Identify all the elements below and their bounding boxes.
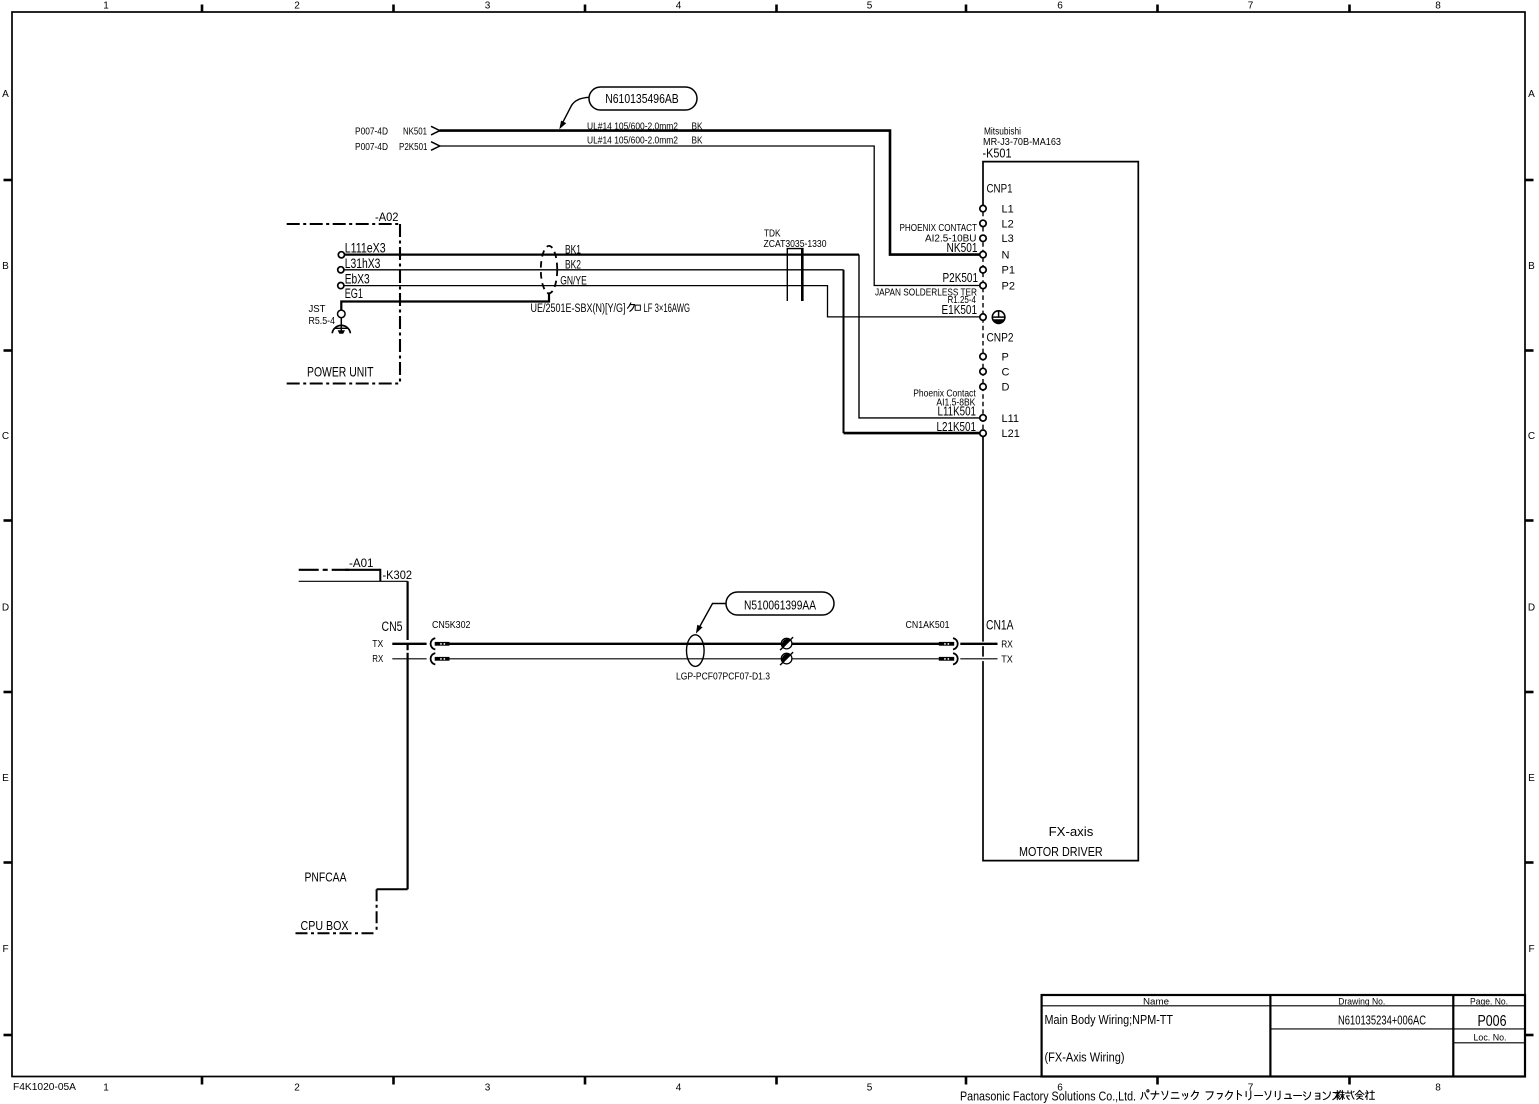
svg-text:BK2: BK2	[565, 258, 581, 272]
svg-text:8: 8	[1435, 0, 1441, 11]
power unit A02 enclosure dash-dot	[287, 224, 400, 384]
svg-text:5: 5	[867, 0, 873, 11]
svg-text:A: A	[2, 89, 9, 100]
cable clamp symbols	[780, 637, 793, 650]
svg-text:L21: L21	[1002, 428, 1020, 440]
pin D K501	[980, 384, 986, 390]
svg-text:B: B	[1528, 261, 1535, 272]
svg-text:TX: TX	[372, 639, 383, 650]
svg-text:D: D	[1528, 603, 1535, 614]
svg-text:Main Body Wiring;NPM-TT: Main Body Wiring;NPM-TT	[1045, 1012, 1174, 1027]
svg-text:-A01: -A01	[349, 556, 374, 570]
svg-text:CN5K302: CN5K302	[432, 619, 471, 631]
K302 designator drop	[379, 569, 381, 582]
svg-text:-K501: -K501	[983, 146, 1012, 161]
svg-text:3: 3	[485, 1082, 491, 1093]
wire L21K501 thick run	[844, 432, 984, 435]
svg-text:5: 5	[867, 1082, 873, 1093]
protective earth symbol at E1K501	[992, 311, 1005, 324]
svg-text:7: 7	[1248, 0, 1254, 11]
wire RX to CN1A-TX	[392, 658, 426, 660]
svg-text:2: 2	[294, 1082, 300, 1093]
pin C K501	[980, 368, 986, 374]
svg-text:BK1: BK1	[565, 243, 581, 257]
svg-text:E1K501: E1K501	[942, 303, 978, 317]
pin L3 K501	[980, 235, 986, 241]
svg-text:Loc. No.: Loc. No.	[1474, 1032, 1507, 1042]
svg-text:P006: P006	[1478, 1013, 1507, 1030]
svg-text:UL#14 105/600-2.0mm2: UL#14 105/600-2.0mm2	[587, 135, 678, 147]
svg-text:L31hX3: L31hX3	[345, 256, 381, 271]
svg-text:F: F	[2, 944, 8, 955]
pin L21 K501	[980, 430, 986, 436]
svg-text:EbX3: EbX3	[345, 272, 370, 287]
svg-text:F: F	[1528, 944, 1534, 955]
svg-text:ZCAT3035-1330: ZCAT3035-1330	[764, 238, 827, 250]
terminal EbX3	[338, 283, 344, 289]
svg-text:4: 4	[676, 0, 682, 11]
wire EG1 to cable shield	[341, 293, 549, 310]
wire L111eX3/BK1 to L11K501	[345, 253, 860, 255]
svg-text:P007-4D: P007-4D	[355, 126, 388, 138]
connector CN1AK501 plug	[939, 657, 954, 661]
terminal EG1 / JST R5.5-4	[338, 310, 346, 318]
pin P K501	[980, 353, 986, 359]
svg-text:R5.5-4: R5.5-4	[309, 315, 336, 327]
svg-text:Drawing No.: Drawing No.	[1338, 996, 1385, 1006]
svg-text:N610135234+006AC: N610135234+006AC	[1338, 1013, 1426, 1028]
svg-text:BK: BK	[692, 121, 703, 133]
svg-text:P2K501: P2K501	[943, 271, 979, 285]
leader arrow to NK501 wire	[563, 97, 589, 122]
svg-text:P007-4D: P007-4D	[355, 141, 388, 153]
svg-text:L111eX3: L111eX3	[345, 241, 386, 256]
svg-text:E: E	[1528, 773, 1535, 784]
svg-text:CNP1: CNP1	[987, 184, 1013, 196]
cpu box A01 boundary dash-dot	[299, 569, 349, 571]
pin PE K501	[980, 314, 986, 320]
svg-text:4: 4	[676, 1082, 682, 1093]
svg-text:-K302: -K302	[383, 568, 413, 582]
svg-text:Name: Name	[1143, 996, 1169, 1006]
svg-text:N510061399AA: N510061399AA	[744, 598, 816, 613]
Panasonic caption japanese (drawn glyphs)	[1141, 1090, 1341, 1100]
svg-text:LGP-PCF07PCF07-D1.3: LGP-PCF07PCF07-D1.3	[676, 671, 770, 683]
pin P2 K501	[980, 282, 986, 288]
svg-text:D: D	[2, 603, 9, 614]
part label N610135496AB	[559, 87, 697, 129]
title block	[1042, 995, 1525, 1077]
pin L11 K501	[980, 415, 986, 421]
svg-text:RX: RX	[372, 654, 383, 665]
svg-text:N: N	[1002, 250, 1010, 262]
motor driver K501 box	[983, 162, 1138, 861]
svg-text:L3: L3	[1002, 233, 1014, 245]
svg-text:B: B	[2, 261, 9, 272]
svg-text:UL#14 105/600-2.0mm2: UL#14 105/600-2.0mm2	[587, 121, 678, 133]
svg-text:L21K501: L21K501	[937, 420, 977, 434]
svg-text:JST: JST	[309, 303, 327, 315]
svg-text:LF 3×16AWG: LF 3×16AWG	[644, 303, 691, 315]
svg-text:F4K1020-05A: F4K1020-05A	[13, 1082, 76, 1093]
wire entry arrow P2K501	[431, 142, 440, 151]
svg-text:FX-axis: FX-axis	[1049, 825, 1094, 839]
connector CN5K302 socket	[431, 653, 436, 664]
title block texts	[1045, 996, 1509, 1064]
svg-text:E: E	[2, 773, 9, 784]
svg-text:BK: BK	[692, 135, 703, 147]
wire L31hX3/BK2 to L21K501	[344, 269, 844, 271]
leader arrow to cable	[700, 604, 727, 628]
svg-text:P1: P1	[1002, 265, 1015, 277]
connector CN1AK501 plug	[939, 642, 954, 646]
connector pin chain dashed	[982, 212, 984, 430]
svg-text:TX: TX	[1001, 654, 1013, 665]
svg-text:8: 8	[1435, 1082, 1441, 1093]
wire NK501 from P007-4D to K501 pin N	[440, 131, 984, 255]
terminal L31hX3	[338, 267, 344, 273]
svg-text:P2K501: P2K501	[399, 141, 428, 153]
svg-text:MOTOR DRIVER: MOTOR DRIVER	[1019, 845, 1103, 859]
svg-text:EG1: EG1	[345, 286, 363, 301]
pin N K501	[980, 251, 986, 257]
svg-text:2: 2	[294, 0, 300, 11]
svg-text:RX: RX	[1001, 639, 1013, 650]
pin P1 K501	[980, 267, 986, 273]
svg-text:N610135496AB: N610135496AB	[605, 91, 679, 106]
svg-text:3: 3	[485, 0, 491, 11]
svg-text:CPU BOX: CPU BOX	[301, 918, 349, 933]
svg-text:L11: L11	[1002, 413, 1020, 425]
terminal L111eX3	[338, 252, 344, 258]
svg-text:Panasonic Factory Solutions Co: Panasonic Factory Solutions Co.,Ltd.	[960, 1089, 1136, 1103]
svg-text:P2: P2	[1002, 280, 1015, 292]
wire entry arrow NK501	[431, 126, 440, 135]
svg-text:C: C	[1002, 366, 1010, 378]
svg-text:CN1AK501: CN1AK501	[906, 619, 950, 631]
svg-text:GN/YE: GN/YE	[560, 273, 587, 287]
svg-text:1: 1	[103, 1082, 109, 1093]
K302 box right edge with wire gaps	[296, 581, 408, 933]
svg-text:L11K501: L11K501	[938, 405, 977, 419]
svg-text:CN5: CN5	[382, 619, 403, 634]
svg-text:P: P	[1002, 351, 1009, 363]
svg-text:C: C	[2, 431, 9, 442]
pin L1 K501	[980, 205, 986, 211]
svg-text:C: C	[1528, 431, 1535, 442]
pin L2 K501	[980, 220, 986, 226]
svg-text:6: 6	[1057, 0, 1063, 11]
cable marker ellipse LGP	[687, 635, 705, 667]
earth ground symbol JST	[332, 318, 350, 334]
svg-text:Page. No.: Page. No.	[1470, 996, 1508, 1006]
svg-text:L1: L1	[1002, 204, 1014, 216]
svg-text:CNP2: CNP2	[987, 333, 1014, 345]
cpu box dash-dot lower	[376, 889, 378, 933]
svg-text:UE/2501E-SBX(N)[Y/G]: UE/2501E-SBX(N)[Y/G]	[531, 303, 626, 315]
svg-text:CN1A: CN1A	[986, 618, 1014, 633]
K302 box top edge	[299, 580, 408, 582]
svg-text:A: A	[1528, 89, 1535, 100]
svg-text:1: 1	[103, 0, 109, 11]
svg-text:-A02: -A02	[375, 210, 399, 224]
svg-text:PNFCAA: PNFCAA	[305, 870, 347, 885]
svg-text:NK501: NK501	[403, 126, 427, 138]
connector CN5K302 socket	[431, 638, 436, 649]
svg-text:POWER UNIT: POWER UNIT	[307, 363, 374, 379]
cable bundle marker dashed ellipse	[541, 246, 557, 293]
ferrite core TDK ZCAT3035-1330	[787, 249, 804, 301]
K302 box bottom edge	[377, 888, 408, 890]
wire EbX3/GN-YE to E1K501	[344, 286, 983, 317]
svg-text:NK501: NK501	[947, 241, 978, 255]
wire P2K501 from P007-4D to K501 pin P2	[440, 146, 984, 286]
part label N510061399AA	[696, 592, 834, 634]
svg-text:(FX-Axis Wiring): (FX-Axis Wiring)	[1045, 1050, 1125, 1065]
wire TX to CN1A-RX	[392, 644, 997, 659]
svg-text:D: D	[1002, 382, 1010, 394]
svg-text:L2: L2	[1002, 218, 1014, 230]
